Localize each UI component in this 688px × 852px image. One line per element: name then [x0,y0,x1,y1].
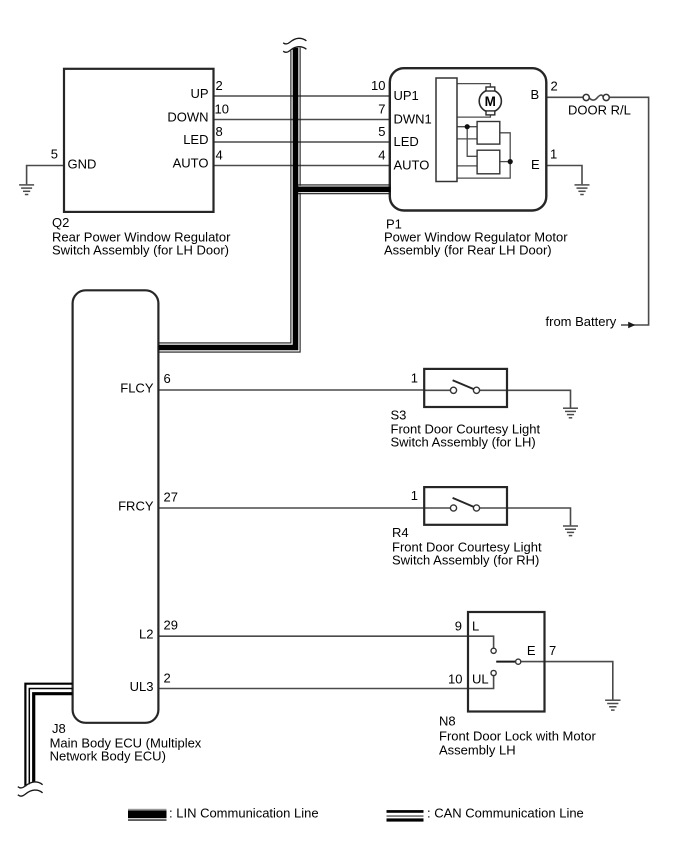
svg-text:UL: UL [472,672,489,687]
svg-text:UP: UP [190,86,208,101]
svg-text:6: 6 [164,371,171,386]
svg-text:5: 5 [378,124,385,139]
svg-text:LED: LED [394,134,419,149]
svg-text:E: E [531,157,540,172]
svg-text:E: E [527,643,536,658]
svg-text:10: 10 [371,78,385,93]
svg-text:Switch Assembly (for RH): Switch Assembly (for RH) [392,553,539,568]
svg-text:1: 1 [411,371,418,386]
svg-text:GND: GND [68,157,97,172]
svg-text:UP1: UP1 [394,88,419,103]
svg-text:9: 9 [455,619,462,634]
svg-text:S3: S3 [391,408,407,423]
svg-text:27: 27 [164,490,178,505]
svg-text:8: 8 [216,124,223,139]
svg-text:29: 29 [164,618,178,633]
svg-text:: CAN Communication Line: : CAN Communication Line [427,806,584,821]
svg-text:M: M [485,94,496,109]
svg-text:FRCY: FRCY [118,499,154,514]
svg-text:L: L [472,619,479,634]
svg-text:1: 1 [550,147,557,162]
svg-text:7: 7 [549,643,556,658]
svg-text:AUTO: AUTO [394,158,430,173]
svg-text:Front Door Lock with Motor: Front Door Lock with Motor [439,729,596,744]
svg-text:Assembly LH: Assembly LH [439,743,516,758]
svg-text:L2: L2 [139,627,153,642]
svg-text:2: 2 [216,78,223,93]
svg-text:4: 4 [216,148,223,163]
svg-text:from Battery: from Battery [546,314,617,329]
svg-text:4: 4 [378,148,385,163]
svg-text:AUTO: AUTO [173,156,209,171]
svg-text:DWN1: DWN1 [394,112,432,127]
svg-text:2: 2 [164,671,171,686]
svg-text:10: 10 [448,672,462,687]
svg-text:DOOR R/L: DOOR R/L [568,102,631,117]
svg-text:LED: LED [183,132,208,147]
svg-text:Network Body ECU): Network Body ECU) [50,749,166,764]
svg-text:10: 10 [215,102,229,117]
svg-text:Q2: Q2 [52,215,69,230]
svg-text:B: B [531,87,540,102]
svg-text:7: 7 [378,102,385,117]
svg-text:DOWN: DOWN [167,110,208,125]
svg-text:: LIN Communication Line: : LIN Communication Line [169,806,319,821]
svg-text:Assembly (for Rear LH Door): Assembly (for Rear LH Door) [384,243,552,258]
svg-text:Switch Assembly (for LH): Switch Assembly (for LH) [391,435,536,450]
svg-text:N8: N8 [439,714,456,729]
svg-text:FLCY: FLCY [120,381,154,396]
svg-text:UL3: UL3 [130,679,154,694]
svg-text:5: 5 [51,147,58,162]
svg-text:1: 1 [411,488,418,503]
svg-text:2: 2 [551,79,558,94]
svg-text:J8: J8 [52,721,66,736]
svg-text:R4: R4 [392,525,409,540]
svg-text:Switch Assembly (for LH Door): Switch Assembly (for LH Door) [52,243,229,258]
